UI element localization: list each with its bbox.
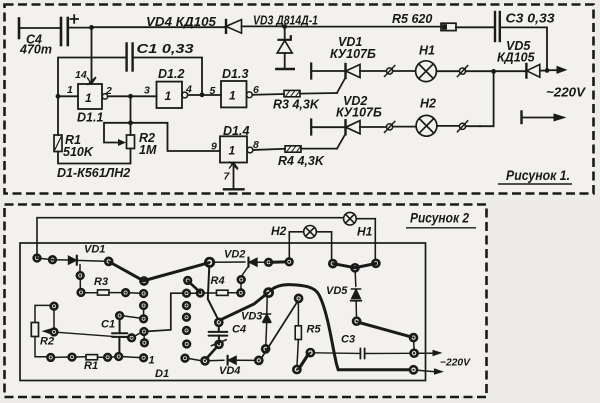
- wire R1 left lead: [76, 356, 87, 358]
- wire IC pins 4-5 link: [143, 335, 145, 341]
- diode VD3 (pcb): [263, 314, 271, 345]
- thyristor VD2 anode common bar: [310, 120, 312, 135]
- svg-text:D1.2: D1.2: [158, 67, 184, 81]
- pad R2 bottom: [47, 354, 54, 361]
- wire D1.4 output to R4: [253, 149, 285, 150]
- resistor R5 (pcb): [295, 303, 301, 366]
- thick trace V right arm: [145, 263, 209, 281]
- capacitor C4 (pcb): [209, 326, 228, 346]
- lamp H2: [416, 115, 437, 136]
- thick link VD2 to H2 pad: [272, 260, 286, 263]
- svg-text:R3: R3: [94, 276, 108, 288]
- svg-text:КУ107Б: КУ107Б: [330, 47, 376, 61]
- ground bar pin7: [224, 188, 244, 190]
- output arrow bottom (~220V): [522, 113, 567, 121]
- potentiometer R2 (pcb): [31, 305, 50, 356]
- wire tap to D1.4 input: [131, 123, 221, 151]
- pad R3 left: [78, 289, 85, 296]
- gate D1.3: [221, 81, 252, 107]
- pad R5 top: [295, 295, 302, 302]
- output arrow upper (-220V): [418, 350, 443, 357]
- wire VD5 pad drop from P5: [208, 266, 218, 319]
- wire: [311, 126, 345, 128]
- svg-text:470m: 470m: [19, 43, 52, 57]
- pad input 2: [49, 256, 56, 263]
- svg-text:VD3 Д814Д-1: VD3 Д814Д-1: [253, 14, 318, 28]
- diode VD1 (pcb): [68, 256, 105, 265]
- wire R1 to C1 bottom: [111, 356, 115, 359]
- svg-text:1M: 1M: [139, 143, 157, 157]
- gate D1.2: [157, 82, 188, 108]
- svg-text:~220V: ~220V: [546, 85, 586, 100]
- wire: [393, 126, 416, 128]
- thick trace C4 bottom to VD4 pad: [207, 347, 218, 359]
- wire D1.1 input: [58, 95, 78, 97]
- pad R4 mid: [197, 290, 204, 297]
- wire C1 right to D1.2 output: [133, 58, 202, 95]
- thyristor VD2: [337, 120, 360, 148]
- wire R3 right lead: [109, 292, 123, 294]
- svg-text:C3 0,33: C3 0,33: [506, 12, 555, 26]
- lamp contact symbol: [385, 121, 395, 132]
- wire IC to VD4: [188, 358, 202, 360]
- svg-text:H2: H2: [420, 97, 436, 111]
- pad VD3 bottom: [262, 345, 269, 352]
- svg-text:VD1: VD1: [84, 244, 105, 256]
- wire R2 wiper loop: [104, 123, 131, 143]
- pad R4 right: [238, 290, 245, 297]
- wire H2 column from junction down: [480, 71, 494, 126]
- wire VD2 to contact: [360, 126, 386, 128]
- lamp H1: [416, 61, 437, 82]
- pad VD4 right: [255, 357, 262, 364]
- svg-text:R5: R5: [307, 324, 322, 336]
- svg-text:R4 4,3K: R4 4,3K: [278, 154, 325, 168]
- svg-text:1: 1: [229, 144, 236, 158]
- pad VD2 anode (big): [205, 258, 213, 266]
- zener diode VD3: [277, 27, 292, 69]
- svg-text:4: 4: [185, 84, 192, 96]
- svg-text:2: 2: [105, 85, 112, 97]
- wiper arrowhead at R2: [42, 329, 51, 335]
- output arrow lower: [418, 368, 445, 375]
- pad VD5 top: [352, 264, 359, 271]
- wire R4 riser: [240, 283, 242, 291]
- diode VD4: [226, 20, 285, 34]
- pad C1 side: [128, 335, 135, 342]
- diode VD5 (pcb): [351, 289, 361, 318]
- svg-text:H1: H1: [419, 44, 435, 58]
- wire: [311, 70, 345, 72]
- wire R2 wiper long run: [58, 332, 129, 337]
- wire R3 to VD1 gate: [300, 92, 337, 95]
- thick trace VD5 pad to pad C: [359, 323, 411, 337]
- svg-text:9: 9: [211, 141, 217, 153]
- gate D1.1: [78, 84, 108, 109]
- pad R1 left: [69, 354, 76, 361]
- wire VD5 feed from pad trio: [354, 271, 357, 287]
- diode VD2 (pcb): [249, 258, 266, 267]
- capacitor C4: [61, 18, 68, 45]
- svg-text:5: 5: [210, 85, 216, 97]
- svg-text:−220V: −220V: [440, 358, 471, 369]
- svg-text:R5 620: R5 620: [392, 12, 432, 26]
- wire H1 top run: [37, 218, 344, 257]
- svg-text:C1 0,33: C1 0,33: [137, 42, 194, 56]
- IC left pin 1r: [140, 290, 147, 297]
- pad K trace junction (big): [265, 289, 273, 297]
- svg-text:VD3: VD3: [241, 311, 262, 323]
- resistor R4 (pcb): [217, 290, 229, 295]
- wire top rail to R5: [285, 26, 441, 28]
- svg-text:VD5: VD5: [326, 285, 348, 297]
- wire VD1 cathode drop: [79, 265, 81, 273]
- panel border (dashed frame, figure 1): [5, 5, 594, 194]
- pad C4 top: [215, 319, 222, 326]
- pad R1 right: [104, 354, 111, 361]
- resistor R3: [284, 90, 300, 96]
- capacitor C1 (pcb): [112, 319, 127, 353]
- wire input pads link: [37, 258, 68, 260]
- svg-text:R4: R4: [211, 275, 225, 287]
- pad C right upper: [410, 334, 417, 341]
- wire D1.2 output: [188, 94, 221, 96]
- pad R3 right: [122, 289, 129, 296]
- wire R1 row left: [54, 356, 68, 358]
- svg-text:1: 1: [67, 84, 73, 96]
- wire top rail: [92, 26, 227, 28]
- wire H1 right leg: [356, 219, 375, 260]
- pad H1 right: [372, 260, 379, 267]
- svg-text:КУ107Б: КУ107Б: [336, 106, 382, 120]
- wire R4 left lead: [203, 292, 217, 294]
- node D1.1 input: [56, 94, 61, 99]
- IC left pin 6: [140, 355, 147, 362]
- wire IC pins 2-3 link: [143, 309, 145, 317]
- svg-text:VD4 КД105: VD4 КД105: [146, 15, 217, 29]
- potentiometer R2: [127, 96, 135, 148]
- pad VD1 drop upper: [77, 272, 84, 279]
- node H1/H2 junction: [491, 69, 496, 74]
- resistor R1: [54, 135, 62, 152]
- node at C3 corner: [545, 68, 550, 73]
- IC right pin 1: [183, 290, 190, 297]
- svg-text:1: 1: [149, 355, 155, 367]
- wire D1.1 output: [108, 95, 157, 97]
- svg-text:C1: C1: [101, 319, 115, 331]
- svg-text:C3: C3: [341, 334, 355, 346]
- IC right pin 6: [182, 355, 189, 362]
- gate D1.4: [220, 136, 253, 162]
- lamp contact symbol: [385, 66, 395, 77]
- PCB board outline: [20, 243, 426, 381]
- IC right pin 2: [183, 302, 190, 309]
- pad via V vertex: [141, 278, 148, 285]
- wire C1 left to input node: [58, 58, 127, 97]
- output arrow top (~220V): [547, 66, 568, 74]
- wire via to R3 pad: [79, 279, 81, 289]
- wire: [436, 70, 459, 72]
- thyristor VD1 anode common bar: [310, 64, 312, 79]
- pad via above IC right: [184, 277, 191, 284]
- lamp H2 (pcb): [304, 226, 317, 239]
- wire: [68, 27, 92, 29]
- wire R1 left rail: [57, 96, 59, 135]
- wire R3 left lead: [84, 292, 97, 294]
- thyristor VD1: [337, 64, 360, 93]
- svg-text:1: 1: [85, 91, 92, 105]
- svg-text:H1: H1: [357, 225, 373, 239]
- pad input left: [34, 255, 41, 262]
- wire IC to R4: [190, 292, 199, 294]
- svg-text:14: 14: [75, 69, 87, 81]
- wire VD1 to contact: [360, 70, 386, 72]
- wire VD4 left lead: [208, 359, 224, 362]
- svg-text:VD4: VD4: [219, 365, 240, 377]
- IC right pin 3: [183, 314, 190, 321]
- svg-text:D1.1: D1.1: [77, 111, 103, 125]
- wire to VD5: [494, 70, 526, 72]
- thick trace pad trio V: [334, 264, 376, 268]
- pad D 220V upper: [411, 350, 418, 357]
- svg-text:C4: C4: [232, 324, 246, 336]
- wire C3 row: [314, 352, 359, 355]
- wire C1 top to IC: [123, 316, 142, 319]
- lamp contact symbol: [457, 121, 467, 132]
- wire R1 right lead: [98, 356, 105, 358]
- IC left pin 4: [141, 328, 148, 335]
- thick link pad A to pad B: [299, 354, 309, 369]
- arrow at pin 7: [230, 162, 238, 169]
- wire VD3 riser: [266, 296, 268, 314]
- pad R2 top: [51, 303, 58, 310]
- pad B R5 bottom: [293, 366, 300, 373]
- svg-text:R3 4,3K: R3 4,3K: [273, 98, 320, 112]
- wire: [19, 27, 61, 29]
- pad A C3 left: [307, 349, 314, 356]
- wire: [393, 70, 416, 72]
- thick trace via to R4: [189, 282, 200, 293]
- svg-text:510K: 510K: [63, 145, 94, 159]
- terminal bar lower right: [520, 112, 522, 124]
- svg-text:Рисунок 1.: Рисунок 1.: [506, 167, 570, 183]
- caption Рисунок 1.: [498, 167, 572, 184]
- panel border (dashed frame, figure 2): [5, 205, 487, 398]
- resistor R3 (pcb): [98, 290, 110, 295]
- wire C1 pad diagonal to IC pin: [134, 333, 141, 337]
- svg-text:R2: R2: [40, 336, 54, 348]
- pad VD2 out: [265, 259, 272, 266]
- node R2 top tap: [128, 120, 133, 125]
- capacitor C3 (pcb): [360, 348, 410, 358]
- node at VD3 branch: [282, 24, 287, 29]
- svg-text:6: 6: [253, 84, 259, 96]
- svg-text:H2: H2: [271, 224, 287, 238]
- wire: [466, 125, 480, 127]
- IC left pin 5: [141, 340, 148, 347]
- resistor R4: [285, 146, 301, 152]
- plus sign of C4: [71, 15, 79, 23]
- svg-text:3: 3: [144, 85, 150, 97]
- resistor R5: [441, 23, 495, 30]
- pad C1 bottom: [115, 353, 122, 360]
- lamp H1 (pcb): [344, 212, 357, 225]
- arrow into pin 14: [88, 78, 96, 85]
- pad VD5 bottom: [353, 318, 360, 325]
- wire VD2 cathode drop: [241, 267, 248, 277]
- diode VD5: [526, 64, 547, 78]
- pad R2 wiper: [51, 329, 58, 336]
- wire C1 bottom to IC pin1: [122, 357, 140, 358]
- pad H2 left: [286, 259, 293, 266]
- svg-text:8: 8: [253, 139, 259, 151]
- wire R2 pads link: [53, 310, 55, 329]
- wire: [437, 125, 459, 127]
- pad VD1 out: [105, 258, 112, 265]
- pad H2 right: [329, 260, 336, 267]
- wire: [466, 70, 494, 72]
- svg-text:D1.3: D1.3: [222, 67, 248, 81]
- node C1 feedback: [200, 92, 205, 97]
- pad VD2 gate 1: [238, 276, 245, 283]
- svg-text:Рисунок 2: Рисунок 2: [410, 210, 469, 226]
- pad C1 top: [116, 312, 123, 319]
- svg-text:D1: D1: [155, 368, 169, 380]
- pad VD4 left: [202, 357, 209, 364]
- lamp contact symbol: [457, 66, 467, 77]
- wire D1.3 output to R3: [252, 93, 284, 96]
- capacitor C1: [127, 44, 133, 71]
- wire R4 to VD2 gate: [301, 148, 337, 150]
- terminal input bar: [18, 19, 21, 39]
- svg-text:R1: R1: [84, 360, 98, 372]
- wire H2 right leg: [316, 232, 331, 260]
- caption Рисунок 2: [406, 210, 476, 228]
- IC left pin 3: [140, 316, 147, 323]
- wire H2 left leg: [289, 232, 303, 258]
- common bar below VD3: [276, 68, 294, 70]
- wire R4 right lead: [228, 292, 238, 294]
- pad E 220V lower: [410, 366, 417, 373]
- resistor R1 (pcb): [86, 355, 98, 360]
- diode VD4 (pcb): [228, 356, 256, 365]
- wire from C3 to right corner: [500, 27, 547, 68]
- wire pad C to pad D: [413, 341, 415, 350]
- IC right pin 5: [183, 341, 190, 348]
- thick trace V left arm: [111, 263, 144, 281]
- thick trace hump and right drop: [271, 285, 411, 370]
- node D1.1 output: [128, 94, 133, 99]
- svg-text:VD2: VD2: [224, 249, 245, 261]
- wire R1 bottom to R2 bottom: [58, 149, 131, 164]
- thick trace C4 to pad K: [221, 294, 268, 320]
- wiper arrow of R2: [118, 139, 126, 146]
- wire pin7 ground: [233, 163, 235, 190]
- svg-text:1: 1: [165, 89, 172, 103]
- wire tap gamma run: [147, 293, 184, 331]
- svg-text:КД105: КД105: [497, 51, 536, 65]
- node junction top rail: [89, 25, 94, 30]
- svg-text:D1.4: D1.4: [223, 124, 249, 138]
- wire R3 to IC pin: [129, 292, 141, 295]
- pad C4 bottom: [216, 341, 223, 348]
- wire diagonal VD4 pad to R5 top: [262, 302, 298, 359]
- IC left pin 2: [140, 302, 147, 309]
- wire VD2 anode feed: [213, 261, 246, 263]
- svg-text:1: 1: [229, 89, 236, 103]
- svg-text:D1-К561ЛН2: D1-К561ЛН2: [57, 166, 130, 180]
- capacitor C3: [495, 12, 500, 41]
- wire pin14 supply: [91, 27, 93, 82]
- IC right pin 4: [183, 327, 190, 334]
